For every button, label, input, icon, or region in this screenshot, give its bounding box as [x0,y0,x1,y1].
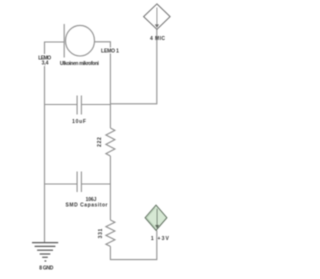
wire C2 to right rail [82,183,111,185]
svg-text:1 +3V: 1 +3V [151,236,170,242]
wire right rail middle [109,156,111,220]
svg-text:331: 331 [98,228,104,238]
svg-text:3,4: 3,4 [42,61,49,67]
microphone MK1 circle [66,25,95,56]
svg-text:222: 222 [97,137,103,147]
microphone plate [63,24,65,58]
wire left rail [44,66,46,242]
wire right rail upper [109,54,111,129]
wire C1 to right rail [82,104,111,106]
wire mic left to LEMO 3,4 stub [45,42,65,54]
svg-text:8 GND: 8 GND [39,266,53,272]
svg-text:10uF: 10uF [72,119,86,125]
wire mic net to 4 MIC diamond [110,30,156,104]
port symbol 1 +3V diamond (green) [145,205,167,230]
svg-text:4 MIC: 4 MIC [150,36,165,42]
svg-text:Ulkoinen mikrofoni: Ulkoinen mikrofoni [60,61,100,67]
wire R2 bottom to +3V diamond [110,230,156,259]
capacitor C1 10uF plates [76,96,78,115]
capacitor C2 106J plates [76,172,78,193]
wire left rail to C2 [45,183,77,185]
resistor R1 222 [106,128,115,156]
wire left rail to C1 [45,104,77,106]
svg-text:LEMO 1: LEMO 1 [101,49,119,55]
wire mic right to LEMO 1 stub [95,42,111,48]
port symbol 4 MIC diamond [144,4,171,29]
svg-text:SMD Capasitor: SMD Capasitor [66,203,108,209]
ground symbol [32,243,58,261]
resistor R2 331 [106,220,115,246]
